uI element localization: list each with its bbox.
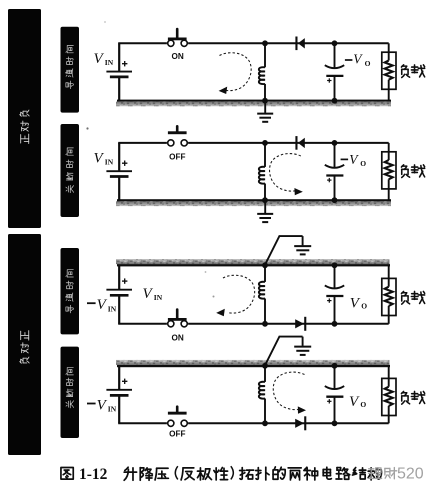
svg-text:IN: IN [105,58,114,67]
svg-text:V: V [97,297,108,313]
svg-text:520: 520 [397,466,424,483]
svg-text:O: O [360,400,366,409]
svg-text:O: O [361,302,367,311]
svg-text:O: O [360,159,366,168]
svg-text:V: V [349,394,360,410]
svg-text:V: V [94,51,105,67]
svg-text:OFF: OFF [169,152,185,161]
svg-text:1-12: 1-12 [79,466,108,483]
svg-text:V: V [94,151,105,167]
svg-text:IN: IN [108,405,117,414]
svg-text:V: V [353,52,363,67]
svg-text:IN: IN [108,304,117,313]
svg-text:OFF: OFF [169,430,185,439]
svg-text:IN: IN [105,158,114,167]
svg-text:IN: IN [154,293,163,302]
svg-text:O: O [365,59,371,68]
svg-text:ON: ON [171,52,183,61]
svg-text:V: V [349,152,359,167]
svg-text:V: V [97,398,108,414]
svg-text:ON: ON [171,333,183,342]
svg-text:V: V [350,295,361,311]
svg-text:V: V [143,286,154,302]
